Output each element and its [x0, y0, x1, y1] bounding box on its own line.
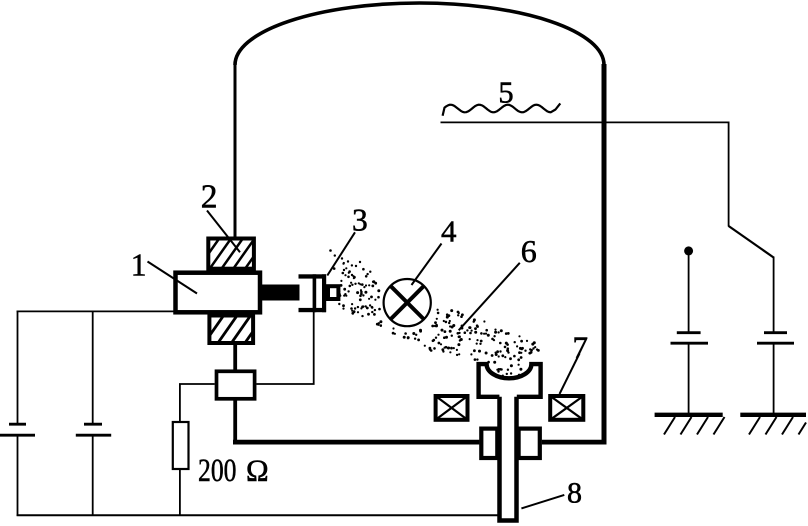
- battery B2 long plate: [76, 434, 111, 437]
- chamber bottom wall right segment: [542, 440, 607, 445]
- bottom bus wire: [17, 514, 498, 516]
- chamber left wall: [234, 64, 237, 238]
- resistor R1: [173, 422, 189, 469]
- battery B2 short plate: [84, 423, 102, 426]
- coil 7 left (crossed box): [436, 396, 468, 420]
- chamber right wall: [602, 64, 607, 445]
- capacitor C1 short plate: [677, 331, 701, 334]
- leader 8: [521, 495, 564, 509]
- svg-text:200: 200: [198, 453, 237, 489]
- battery B1 long plate: [0, 434, 35, 437]
- chamber wall stub feedthrough to bottom: [233, 400, 237, 443]
- svg-text:4: 4: [441, 214, 457, 249]
- capacitor C1 long plate: [671, 342, 709, 345]
- wire switch to capacitor C2: [773, 257, 775, 333]
- battery B2 wire bottom: [92, 437, 94, 517]
- insulator block 2 (upper, hatched): [197, 237, 280, 271]
- insulator block (lower, hatched): [203, 314, 279, 346]
- battery B1 wire bottom: [17, 437, 19, 517]
- wire battery bus to gun body: [17, 310, 175, 312]
- capacitor C2 long plate: [757, 342, 794, 345]
- nozzle tip: [328, 286, 338, 299]
- substrate cup (collector): [479, 364, 541, 397]
- leader 1: [148, 262, 198, 294]
- wire C2 to ground: [773, 343, 775, 413]
- svg-text:2: 2: [201, 179, 218, 216]
- chamber wall stub between insulator and feedthrough: [233, 344, 237, 370]
- svg-text:Ω: Ω: [246, 454, 269, 488]
- substrate holder stem 8: [500, 394, 517, 521]
- wire contact to capacitor C1: [688, 253, 690, 332]
- ground symbol left: [655, 415, 725, 435]
- wavy line (surface) 5: [443, 103, 561, 115]
- substrate holder pads (flange): [481, 429, 497, 458]
- switch blade S1: [729, 226, 774, 258]
- svg-text:1: 1: [131, 248, 147, 283]
- switch open contact node: [684, 246, 693, 255]
- spray plume 6 (dotted particle jet): [329, 249, 540, 377]
- leader 7: [560, 354, 580, 395]
- battery B2 wire top: [92, 311, 94, 424]
- electron gun body 1: [176, 273, 261, 313]
- leader 4: [412, 244, 442, 286]
- svg-text:7: 7: [573, 329, 589, 364]
- leader 2: [207, 211, 240, 253]
- svg-text:5: 5: [498, 76, 513, 110]
- wire from chamber interior to switch: [441, 122, 729, 226]
- leader 3: [327, 232, 355, 275]
- leader 6: [459, 263, 520, 331]
- valve/lamp symbol 4 (crossed circle): [384, 279, 431, 326]
- chamber bottom wall left segment: [233, 440, 479, 445]
- feedthrough box: [217, 371, 255, 399]
- battery B1 short plate: [9, 423, 26, 426]
- ground symbol right: [740, 415, 806, 435]
- gun rod (solid): [262, 285, 300, 301]
- wire resistor to bottom bus: [179, 470, 181, 516]
- battery B1 wire top: [17, 311, 19, 424]
- wire feedthrough to resistor: [180, 384, 215, 422]
- nozzle assembly 3: [299, 274, 327, 312]
- capacitor C2 short plate: [764, 331, 787, 334]
- coil 7 right (crossed box): [550, 396, 583, 420]
- wire nozzle down and to feedthrough: [257, 312, 314, 384]
- svg-text:8: 8: [567, 477, 582, 510]
- chamber dome top: [235, 3, 604, 65]
- svg-text:6: 6: [521, 233, 537, 269]
- wire C1 to ground: [688, 343, 690, 413]
